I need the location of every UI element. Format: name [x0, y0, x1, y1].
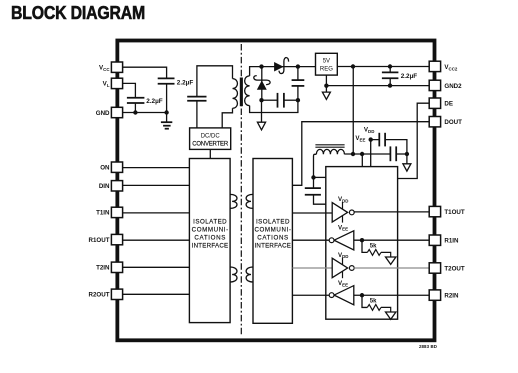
pin GND — [111, 107, 122, 117]
svg-text:T1OUT: T1OUT — [444, 209, 465, 216]
node VCC2 rail junction at C6 — [388, 64, 392, 68]
resistor R1 5k termination — [362, 240, 391, 256]
node 5V REG ground junction — [324, 84, 328, 88]
label T2OUT — [444, 266, 465, 273]
wire VL to C2 — [122, 83, 135, 97]
driver/receiver block — [326, 167, 398, 320]
svg-text:DC/DC: DC/DC — [201, 133, 221, 139]
pin DOUT — [429, 117, 440, 127]
capacitor C5 (vertical, secondary output) — [292, 67, 305, 101]
wire 5V REG ground leg — [325, 75, 327, 86]
wire T2 row interface to driver (gray) — [292, 267, 332, 269]
title BLOCK DIAGRAM — [11, 3, 145, 23]
wire R2IN input row — [354, 294, 429, 296]
ground arrow (R1 termination) — [386, 257, 396, 264]
pin VCC2 — [429, 61, 440, 71]
wire L1 node to driver block — [314, 176, 326, 178]
svg-text:GND: GND — [96, 110, 110, 117]
pin DIN — [111, 181, 122, 191]
label T1OUT — [444, 209, 465, 216]
label VL — [103, 81, 110, 88]
transformer T3 left winding — [230, 267, 237, 282]
capacitor C2 2.2uF (VL bypass) — [127, 98, 144, 113]
capacitor C4 (horizontal, secondary) — [262, 93, 298, 108]
wire DC/DC to interface block — [209, 149, 211, 158]
wire DC/DC input with C-series — [196, 101, 198, 128]
label R2OUT — [89, 292, 110, 299]
diode D1 series rectifier with integral-bar — [275, 58, 289, 74]
wire DOUT trace — [292, 122, 429, 186]
wire L1 left leg down — [314, 154, 317, 177]
pin R1IN — [429, 235, 440, 245]
wire R1 row receiver to interface — [292, 239, 329, 241]
svg-text:2.2µF: 2.2µF — [146, 98, 163, 105]
ground arrow (R2 termination) — [386, 312, 396, 319]
node R1 termination junction — [360, 238, 364, 242]
diode D2 shunt (pointing up) with integral-bar — [254, 67, 270, 101]
wire VEE rail — [344, 153, 389, 155]
pin VCC — [111, 62, 122, 72]
isolated communications interface block (bus side) — [253, 159, 292, 324]
svg-text:T1IN: T1IN — [96, 210, 110, 217]
wire R1OUT output — [122, 239, 189, 241]
label T2IN — [96, 265, 110, 272]
transformer T1 primary winding — [222, 79, 237, 128]
svg-text:R1IN: R1IN — [444, 238, 459, 245]
wire T1IN input — [122, 212, 189, 214]
svg-text:DIN: DIN — [99, 183, 110, 190]
pin T1OUT — [429, 206, 440, 216]
wire VCC2 down-feed at x353 — [352, 67, 354, 155]
svg-text:GND2: GND2 — [444, 83, 462, 90]
wire R1IN input row — [354, 239, 429, 241]
driver U3 T1 (triangle) — [332, 202, 354, 223]
svg-text:BLOCK DIAGRAM: BLOCK DIAGRAM — [11, 3, 145, 23]
svg-text:DE: DE — [444, 101, 453, 108]
wire VCC2 rail — [337, 66, 429, 68]
pin ON — [111, 162, 122, 172]
wire T2OUT output row (gray) — [354, 267, 429, 269]
label 2.2uF (C2) — [146, 98, 163, 105]
svg-text:CATIONS: CATIONS — [257, 234, 288, 241]
svg-text:5k: 5k — [370, 299, 377, 305]
label DIN — [99, 183, 110, 190]
label VEE (supply node) — [355, 135, 365, 142]
svg-text:INTERFACE: INTERFACE — [192, 242, 229, 249]
pin DE — [429, 98, 440, 108]
label R1IN — [444, 238, 459, 245]
svg-text:COMMUNI-: COMMUNI- — [254, 226, 291, 233]
ground arrow (secondary common) — [257, 122, 265, 130]
pin R2IN — [429, 290, 440, 300]
node secondary top at D2 — [259, 64, 263, 68]
label VDD (T1 driver) — [338, 196, 348, 203]
svg-text:ON: ON — [100, 165, 110, 172]
svg-text:2.2µF: 2.2µF — [401, 73, 418, 80]
svg-text:COMMUNI-: COMMUNI- — [192, 226, 229, 233]
wire T2IN input — [122, 266, 189, 268]
label 5k (R2) — [370, 299, 377, 305]
node R2 termination junction — [360, 293, 364, 297]
svg-text:R2OUT: R2OUT — [89, 292, 110, 299]
transformer T2 right winding — [246, 194, 253, 208]
pin VL — [111, 78, 122, 88]
wire VEE into interface block — [361, 154, 363, 167]
wire VDD branch — [371, 140, 379, 167]
wire VCC to C1 — [122, 67, 166, 78]
wire R2 row receiver to interface — [292, 294, 329, 296]
capacitor C3 (DC/DC input) — [187, 97, 206, 101]
svg-text:CONVERTER: CONVERTER — [192, 141, 229, 147]
label DOUT — [444, 119, 462, 126]
ground arrow (bypass common) — [403, 154, 411, 171]
label VDD (T2 driver) — [338, 252, 348, 259]
IC outer boundary — [117, 41, 434, 341]
node VEE rail at x362 — [360, 152, 364, 156]
capacitor C6 2.2uF (VCC2 bypass) — [382, 67, 399, 86]
receiver U6 R2 (triangle) — [329, 286, 354, 305]
isolated communications interface block (logic side) — [189, 159, 230, 323]
pin R1OUT — [111, 234, 122, 244]
ground earth symbol — [161, 113, 172, 129]
capacitor C7 (VEE bypass) — [390, 146, 407, 161]
label GND — [96, 110, 110, 117]
wire D2 node to ground arrow — [261, 100, 263, 122]
receiver U4 R1 (triangle) — [329, 231, 354, 250]
transformer T2 left winding — [230, 194, 237, 208]
svg-text:CATIONS: CATIONS — [194, 234, 225, 241]
node GND2 rail junction at C6 — [388, 83, 392, 87]
pin T2OUT — [429, 263, 440, 273]
label VEE (T2 driver) — [338, 280, 348, 287]
node L1 cap junction — [311, 175, 315, 179]
label figure number — [419, 344, 437, 349]
node VDD branch junction — [369, 137, 373, 141]
node D2 anode junction — [259, 98, 263, 102]
ground arrow (under 5V REG) — [322, 86, 330, 100]
label VEE (T1 driver) — [338, 224, 348, 231]
wire secondary top rail — [250, 67, 316, 76]
svg-text:DOUT: DOUT — [444, 119, 462, 126]
capacitor C8 (VDD bypass) — [379, 133, 407, 154]
inductor L1 winding — [316, 149, 344, 154]
node GND junction at C2 — [133, 110, 137, 114]
node VCC2 rail junction at x353 — [351, 64, 355, 68]
label T1IN — [96, 210, 110, 217]
wire secondary bottom rail — [250, 100, 298, 112]
svg-text:T2IN: T2IN — [96, 265, 110, 272]
label VCC — [99, 65, 110, 72]
pin T1IN — [111, 207, 122, 217]
isolation barrier dashed line — [240, 44, 242, 336]
svg-text:ISOLATED: ISOLATED — [193, 218, 227, 225]
svg-text:2.2µF: 2.2µF — [177, 79, 194, 86]
pin T2IN — [111, 262, 122, 272]
label 2.2uF (C6) — [401, 73, 418, 80]
svg-text:T2OUT: T2OUT — [444, 266, 465, 273]
capacitor C1 2.2uF (VCC bypass) — [158, 78, 175, 112]
wire T1 row interface to driver — [292, 212, 332, 214]
inductor L1 core lines — [315, 145, 344, 147]
wire GND2 rail — [326, 85, 429, 87]
svg-text:ISOLATED: ISOLATED — [256, 218, 290, 225]
svg-text:REG: REG — [320, 66, 333, 72]
wire T1OUT output row — [354, 211, 429, 213]
wire DIN input — [122, 184, 189, 186]
wire GND rail — [122, 112, 166, 114]
svg-text:R1OUT: R1OUT — [89, 237, 110, 244]
transformer T1 core — [240, 78, 243, 107]
node C5 bottom junction — [296, 98, 300, 102]
svg-text:R2IN: R2IN — [444, 293, 459, 300]
transformer T1 secondary winding — [245, 76, 250, 106]
pin GND2 — [429, 80, 440, 90]
label R1OUT — [89, 237, 110, 244]
label 5k (R1) — [370, 244, 377, 250]
transformer T3 right winding — [246, 267, 253, 282]
pin R2OUT — [111, 289, 122, 299]
resistor R2 5k termination — [362, 295, 391, 311]
svg-text:INTERFACE: INTERFACE — [254, 242, 291, 249]
node GND junction at C1 — [164, 110, 168, 114]
label VDD (supply node) — [364, 127, 374, 134]
regulator U2 5V REG — [316, 53, 338, 75]
wire R2OUT output — [122, 293, 189, 295]
label R2IN — [444, 293, 459, 300]
label GND2 — [444, 83, 462, 90]
label VCC2 — [444, 64, 457, 71]
wire DE trace — [398, 103, 430, 178]
wire primary top rail — [197, 66, 233, 96]
wire ON input — [122, 167, 189, 169]
label 2.2uF (C1) — [177, 79, 194, 86]
node VEE rail at x353 — [351, 152, 355, 156]
node bypass common junction — [405, 152, 409, 156]
svg-text:5V: 5V — [323, 58, 330, 64]
svg-text:5k: 5k — [370, 244, 377, 250]
driver U5 T2 (triangle) — [332, 258, 354, 279]
capacitor C9 (charge pump) — [305, 177, 326, 204]
DC/DC converter block — [190, 128, 231, 149]
label DE — [444, 101, 453, 108]
node C5 top junction — [296, 64, 300, 68]
label ON — [100, 165, 110, 172]
svg-text:2883 BD: 2883 BD — [419, 344, 437, 349]
